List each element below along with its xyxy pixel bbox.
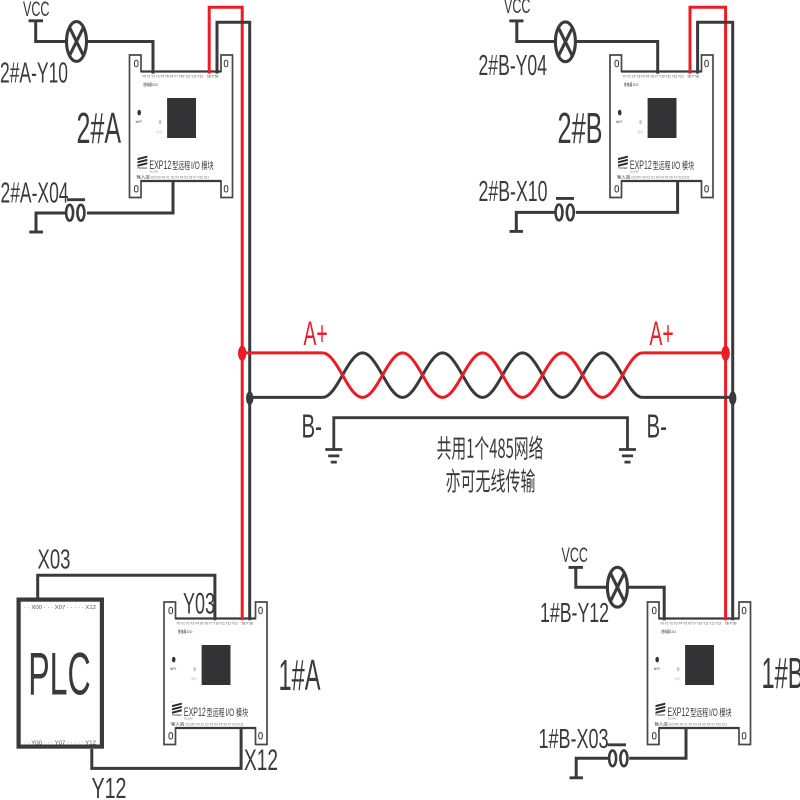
svg-text:· · Y00 · · · Y07 · · · · · Y1: · · Y00 · · · Y07 · · · · · Y12 xyxy=(24,740,96,746)
svg-text:A+: A+ xyxy=(304,314,328,352)
svg-text:2#A: 2#A xyxy=(77,104,122,153)
svg-text:2#B: 2#B xyxy=(558,104,603,153)
svg-text:A+: A+ xyxy=(650,314,674,352)
svg-text:X12: X12 xyxy=(244,744,278,777)
svg-text:2#A-X04: 2#A-X04 xyxy=(1,177,69,209)
svg-text:1#A: 1#A xyxy=(279,651,321,700)
svg-text:1#B-Y12: 1#B-Y12 xyxy=(540,597,609,628)
svg-text:2#B-X10: 2#B-X10 xyxy=(479,176,548,208)
svg-text:B-: B- xyxy=(302,408,322,445)
svg-text:B-: B- xyxy=(647,408,667,445)
svg-text:X03: X03 xyxy=(38,544,71,575)
svg-text:VCC: VCC xyxy=(23,0,50,21)
svg-text:VCC: VCC xyxy=(504,0,531,18)
svg-text:1#B-X03: 1#B-X03 xyxy=(539,723,609,754)
svg-text:· · X00 · · · X07 · · · · · X1: · · X00 · · · X07 · · · · · X12 xyxy=(24,605,96,611)
svg-text:PLC: PLC xyxy=(28,641,90,708)
svg-text:Y03: Y03 xyxy=(183,588,215,621)
svg-text:VCC: VCC xyxy=(562,544,589,567)
svg-text:2#A-Y10: 2#A-Y10 xyxy=(0,58,68,90)
svg-text:2#B-Y04: 2#B-Y04 xyxy=(479,50,548,82)
svg-text:1#B: 1#B xyxy=(762,649,800,698)
svg-text:Y12: Y12 xyxy=(92,773,127,800)
